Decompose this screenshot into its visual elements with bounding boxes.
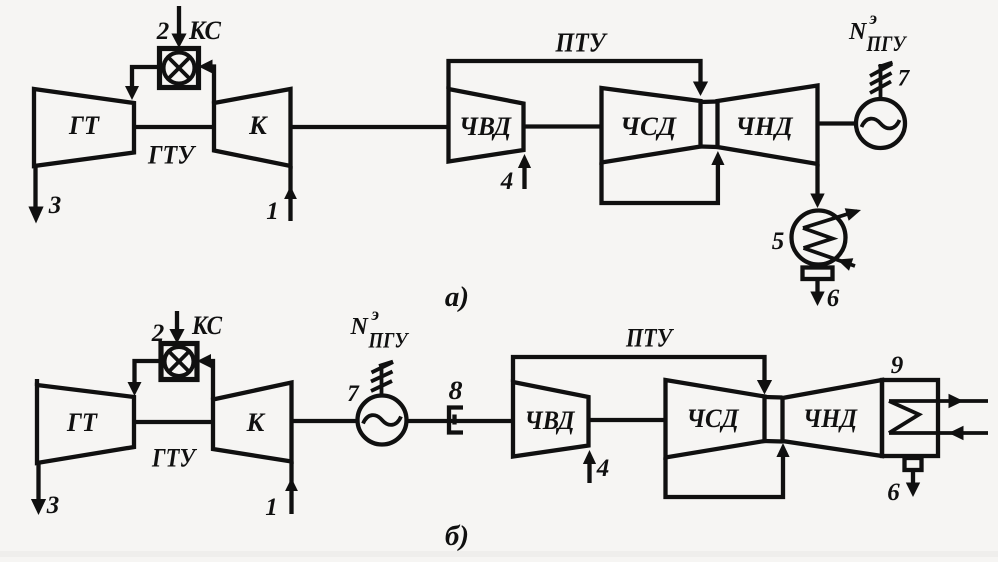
svg-text:К: К bbox=[246, 408, 266, 437]
svg-text:ПГУ: ПГУ bbox=[368, 328, 410, 353]
wire: GT exhaust down (bottom) bbox=[36, 461, 40, 504]
svg-text:ЧНД: ЧНД bbox=[736, 112, 794, 141]
condenser cooling water outlet (top) bbox=[803, 211, 857, 228]
wire: ChND exhaust to condenser (top) bbox=[815, 164, 819, 196]
HP turbine ChVD (bottom) bbox=[513, 382, 589, 457]
condenser cooling water inlet (top) bbox=[804, 248, 856, 266]
combustion chamber KS box (top) bbox=[160, 49, 199, 88]
svg-text:а): а) bbox=[445, 281, 469, 313]
arrow: into KS (bottom) bbox=[197, 354, 211, 368]
svg-text:б): б) bbox=[445, 520, 469, 552]
svg-text:2: 2 bbox=[156, 18, 170, 45]
svg-text:ПГУ: ПГУ bbox=[866, 31, 908, 56]
svg-text:N: N bbox=[848, 19, 868, 45]
generator sine wave (top) bbox=[862, 119, 900, 129]
generator G circle (top) bbox=[856, 99, 905, 148]
wire: GT exhaust down (top) bbox=[33, 164, 37, 212]
clutch 8 tick (bottom) bbox=[452, 415, 456, 425]
gas turbine GT (bottom) bbox=[37, 385, 134, 463]
svg-text:9: 9 bbox=[891, 352, 904, 379]
wire: K to KS pipe (bottom) bbox=[203, 361, 214, 400]
generator G circle (bottom) bbox=[358, 396, 407, 445]
wire: steam inlet 4 (top) bbox=[522, 166, 526, 189]
wire: K to KS pipe (top) bbox=[204, 67, 214, 104]
clutch 8 bracket (bottom) bbox=[449, 408, 463, 433]
wire: air inlet 1 (bottom) bbox=[289, 462, 293, 515]
combustion chamber KS cross (bottom) bbox=[169, 351, 189, 371]
generator sine wave (bottom) bbox=[363, 415, 401, 425]
wire: KS to GT pipe (bottom) bbox=[135, 361, 162, 384]
wire: KS to GT pipe (top) bbox=[132, 67, 160, 88]
svg-text:2: 2 bbox=[151, 320, 165, 347]
svg-text:ГТУ: ГТУ bbox=[151, 444, 197, 473]
LP turbine ChND (top) bbox=[718, 86, 818, 165]
svg-text:э: э bbox=[371, 304, 379, 324]
combustion chamber KS circle (bottom) bbox=[165, 347, 194, 376]
arrow: air 1 up (bottom) bbox=[285, 478, 298, 491]
wire: PTU steam pipe (top) bbox=[449, 61, 701, 89]
arrow: exhaust into condenser (top) bbox=[810, 194, 824, 209]
arrow: fuel 2 into KS (bottom) bbox=[169, 329, 184, 344]
arrow: PTU steam into ChSD (top) bbox=[693, 82, 708, 97]
wire: cooling water in (bottom) bbox=[889, 431, 988, 435]
wire: PTU steam pipe (bottom) bbox=[513, 357, 765, 382]
gas turbine GT (top) bbox=[34, 89, 134, 166]
generator lead line (top) bbox=[879, 64, 883, 99]
svg-text:ГТУ: ГТУ bbox=[147, 141, 197, 170]
wire: shaft GT-K (top) bbox=[134, 125, 214, 129]
arrow: condensate 6 down (bottom) bbox=[906, 483, 920, 498]
arrow: condensate 6 down (top) bbox=[810, 292, 824, 307]
svg-text:ПТУ: ПТУ bbox=[555, 28, 609, 58]
generator lead line (bottom) bbox=[380, 364, 384, 396]
wire: steam inlet 4 (bottom) bbox=[587, 462, 591, 483]
HP turbine ChVD (top) bbox=[449, 89, 524, 162]
generator lead slashes (top) bbox=[879, 63, 893, 68]
arrow: cooling out (top) bbox=[845, 208, 861, 221]
arrow: into KS (top) bbox=[199, 60, 213, 74]
wire: shaft ChVD-ChSD (bottom) bbox=[589, 418, 666, 422]
arrow: PTU steam into ChSD (bottom) bbox=[757, 380, 772, 395]
svg-text:КС: КС bbox=[188, 16, 222, 45]
svg-text:ЧСД: ЧСД bbox=[620, 112, 677, 141]
wire: shaft K-ChVD (top) bbox=[291, 125, 449, 129]
condenser hotwell (top) bbox=[803, 268, 833, 280]
arrow: cooling out right (bottom) bbox=[949, 394, 964, 408]
combustion chamber KS cross (top) bbox=[168, 57, 190, 79]
arrow: fuel 2 into KS (top) bbox=[171, 34, 186, 49]
arrow: exhaust 3 down (bottom) bbox=[31, 499, 46, 515]
wire: condensate drain (top) bbox=[815, 279, 819, 294]
wire: crossover duct ChSD to ChND (bottom) bbox=[666, 455, 784, 497]
generator lead slashes (bottom) bbox=[379, 362, 393, 367]
condenser zigzag (top) bbox=[803, 228, 833, 248]
svg-text:1: 1 bbox=[266, 198, 279, 225]
wire: shaft ChND-generator (top) bbox=[818, 121, 857, 125]
svg-text:3: 3 bbox=[46, 492, 60, 519]
svg-text:N: N bbox=[350, 314, 370, 340]
wire: condensate drain (bottom) bbox=[911, 470, 915, 484]
svg-text:5: 5 bbox=[772, 228, 785, 255]
svg-text:7: 7 bbox=[898, 66, 911, 91]
svg-text:К: К bbox=[248, 111, 268, 140]
svg-text:ЧВД: ЧВД bbox=[459, 112, 512, 141]
arrow: cooling in (top) bbox=[837, 258, 853, 271]
waist link bottom (top) bbox=[701, 144, 718, 149]
svg-text:ГТ: ГТ bbox=[68, 111, 100, 140]
combustion chamber KS box (bottom) bbox=[161, 344, 197, 380]
arrow: air 1 up (top) bbox=[284, 186, 297, 199]
svg-text:ГТ: ГТ bbox=[66, 408, 98, 437]
arrow: steam 4 up (top) bbox=[518, 154, 531, 168]
arrow: steam 4 up (bottom) bbox=[583, 450, 596, 464]
waist link bottom (bottom) bbox=[765, 439, 783, 444]
wire: shaft generator-clutch-ChVD (bottom) bbox=[407, 419, 514, 423]
condenser hotwell (bottom) bbox=[905, 458, 922, 470]
svg-text:7: 7 bbox=[347, 381, 360, 406]
waist link top (bottom) bbox=[765, 395, 783, 400]
wire: shaft K-generator (bottom) bbox=[292, 419, 358, 423]
wire: shaft ChVD-ChSD (top) bbox=[524, 124, 602, 128]
svg-text:8: 8 bbox=[449, 376, 463, 405]
arrow: into GT (top) bbox=[125, 86, 139, 100]
combustion chamber KS circle (top) bbox=[164, 53, 195, 84]
arrow: crossover up into ChND (bottom) bbox=[776, 443, 789, 457]
svg-text:6: 6 bbox=[827, 285, 840, 312]
condenser 5 circle (top) bbox=[792, 211, 846, 265]
wire: cooling water out (bottom) bbox=[889, 399, 988, 403]
waist link top (top) bbox=[701, 99, 718, 104]
condenser 9 box (bottom) bbox=[882, 380, 938, 456]
svg-text:э: э bbox=[869, 8, 877, 28]
IP turbine ChSD (top) bbox=[602, 88, 701, 163]
svg-text:ЧВД: ЧВД bbox=[525, 406, 576, 435]
svg-text:3: 3 bbox=[48, 192, 62, 219]
arrow: cooling in left (bottom) bbox=[949, 426, 964, 440]
wire: fuel feed 2 (bottom) bbox=[175, 311, 179, 331]
svg-text:КС: КС bbox=[191, 311, 222, 340]
compressor K (top) bbox=[214, 89, 291, 166]
label N-PGU (top) bbox=[848, 8, 908, 56]
wire: fuel feed 2 (top) bbox=[177, 6, 181, 36]
arrow: into GT (bottom) bbox=[128, 382, 142, 396]
svg-text:4: 4 bbox=[596, 455, 610, 482]
arrow: exhaust 3 down (top) bbox=[28, 207, 43, 224]
label N-PGU (bottom) bbox=[350, 304, 410, 353]
wire: shaft GT-K (bottom) bbox=[134, 420, 213, 424]
arrow: crossover up into ChND (top) bbox=[711, 151, 724, 165]
IP turbine ChSD (bottom) bbox=[666, 380, 765, 458]
svg-text:4: 4 bbox=[500, 168, 514, 195]
LP turbine ChND (bottom) bbox=[783, 380, 883, 456]
svg-text:6: 6 bbox=[887, 479, 900, 506]
svg-text:ЧСД: ЧСД bbox=[687, 404, 740, 433]
wire: crossover duct ChSD to ChND (top) bbox=[602, 161, 718, 203]
svg-text:ПТУ: ПТУ bbox=[625, 324, 674, 353]
wire: air inlet 1 (top) bbox=[288, 166, 292, 221]
condenser sigma coil (bottom) bbox=[889, 401, 919, 433]
compressor K (bottom) bbox=[213, 383, 292, 462]
svg-text:ЧНД: ЧНД bbox=[803, 404, 858, 433]
svg-text:1: 1 bbox=[265, 494, 278, 521]
